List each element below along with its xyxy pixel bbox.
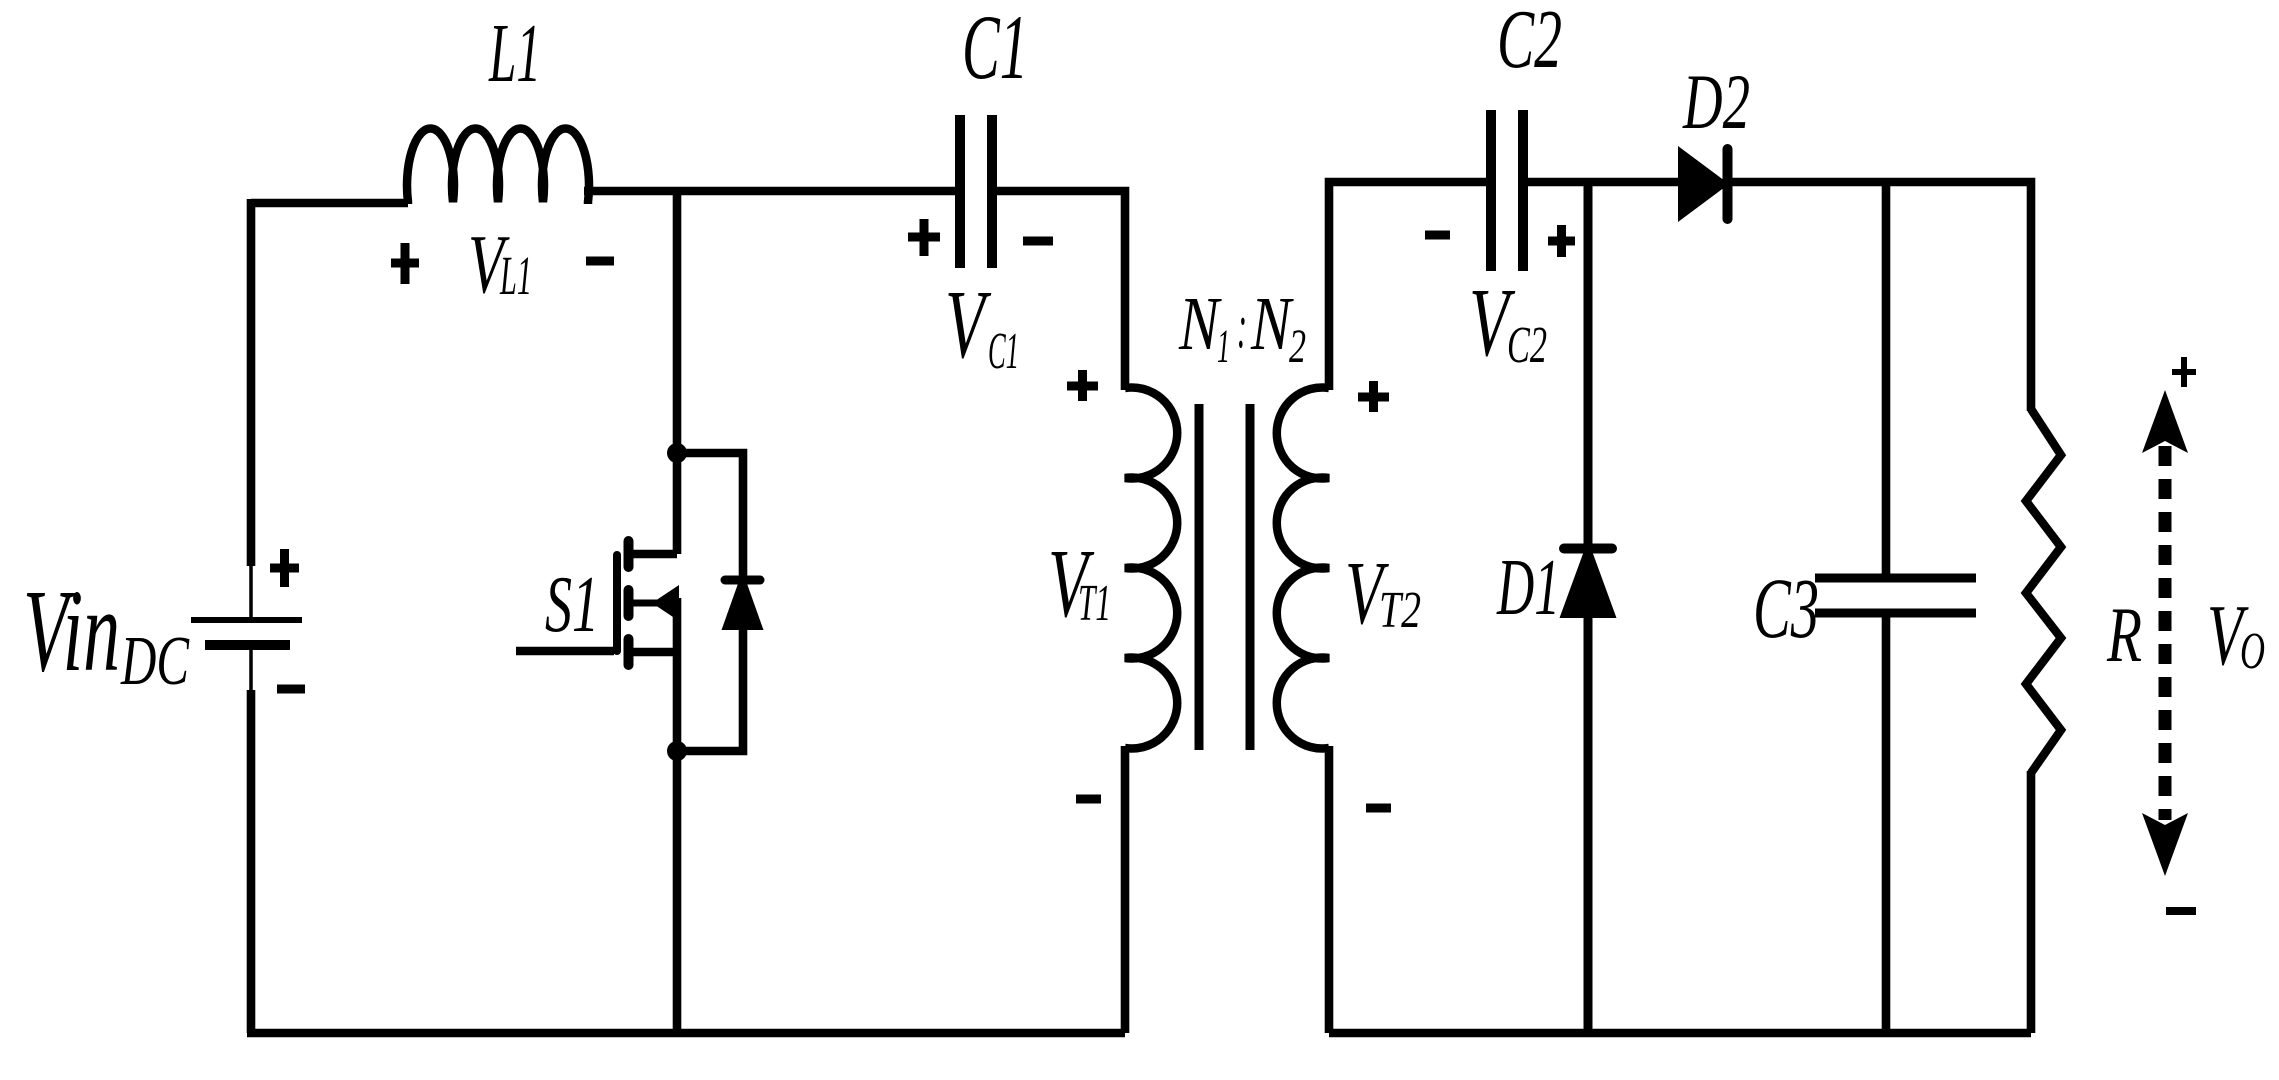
plus sign battery [270,549,299,587]
capacitor C2 right plate [1518,110,1528,271]
svg-text:C2: C2 [1507,317,1547,374]
svg-text:C1: C1 [988,323,1019,380]
plus sign V_C1 [908,219,940,256]
minus sign battery [277,685,305,694]
node B: S1 source junction dot [667,741,687,761]
svg-text:T2: T2 [1379,582,1421,639]
transformer core line right [1246,404,1255,750]
svg-text:L1: L1 [499,245,532,306]
minus sign V_C2 [1425,231,1450,240]
resistor R zigzag [2026,409,2061,773]
transistor S1 drain horizontal connection [633,550,677,559]
wire: D2 to right corner and down resistor branch top [1730,182,2031,411]
node A: S1 drain junction dot [667,443,687,463]
transistor S1 gate bar [613,555,621,651]
wire: S1 drain vertical from top rail to node [673,191,682,554]
battery Vin_DC negative plate [205,640,290,650]
wire: bottom rail secondary side [1329,1029,2031,1038]
minus sign V_L1 [586,257,614,266]
svg-text:1: 1 [1217,320,1230,373]
svg-text:N: N [1250,282,1294,366]
svg-text:N: N [1178,282,1222,366]
plus sign V_C2 [1548,225,1575,257]
wire: S1 source vertical down to bottom rail [673,598,682,1033]
arrow V_O dashed shaft [2159,446,2172,820]
transformer core line left [1195,404,1204,750]
svg-text:DC: DC [120,623,190,700]
transistor Q S1 MOSFET gate lead [516,647,614,656]
wire: body-diode branch top jog [677,453,743,577]
wire: C3 branch top vertical [1882,182,1891,580]
svg-text:L1: L1 [488,7,541,100]
plus sign V_T1 [1067,370,1098,401]
transformer T1 primary winding [1125,388,1177,749]
svg-text:C3: C3 [1753,560,1819,656]
plus sign V_O [2172,357,2196,387]
transistor S1 source horizontal connection [633,648,677,657]
svg-text:D1: D1 [1496,544,1560,632]
arrow V_O bottom head [2142,813,2188,876]
wire: top-left horizontal from source to L1 [251,199,408,208]
transistor S1 channel segment source [624,639,634,665]
transistor S1 channel segment body [624,590,634,616]
wire: secondary bottom lead down to bottom rail [1325,746,1334,1033]
wire: thin lead out of battery bottom plate [249,647,253,692]
capacitor C2 left plate [1486,110,1496,271]
svg-text:Vin: Vin [23,565,120,696]
svg-text:C1: C1 [962,0,1028,98]
wire: body-diode branch bottom jog [677,627,743,751]
wire: C2 to D2 [1528,178,1680,187]
capacitor C3 bottom plate [1815,609,1976,618]
svg-text:2: 2 [1289,320,1306,373]
svg-text:T1: T1 [1078,575,1111,632]
wire: C1 right plate to corner and down to transformer primary [997,191,1125,390]
diode D1 cathode bar [1564,544,1612,554]
wire: left vertical from top corner down to battery top [247,199,256,566]
transformer T1 secondary winding [1277,388,1329,749]
inductor L1 [407,129,589,204]
wire: C3 branch bottom vertical [1882,611,1891,1033]
transistor S1 body arrow [652,585,679,621]
wire: secondary top lead up and right to C2 [1329,182,1486,390]
minus sign V_T1 [1076,795,1101,804]
transistor S1 channel segment drain [624,541,634,567]
minus sign V_O [2166,907,2196,915]
diode S1 body diode triangle [722,571,764,630]
minus sign V_T2 [1366,804,1391,813]
diode D2 cathode bar [1723,149,1733,219]
diode D1 triangle [1560,540,1617,618]
wire: top rail from L1 to C1 [584,187,955,196]
wire: left vertical from battery down to bottom rail [247,690,256,1033]
capacitor C1 right plate [987,115,997,268]
svg-text:D2: D2 [1682,58,1750,145]
svg-text:C2: C2 [1497,0,1562,86]
svg-text:O: O [2240,623,2265,680]
capacitor C3 top plate [1815,574,1976,583]
wire: D1 branch vertical [1584,182,1593,1033]
wire: thin lead into battery top plate [249,564,253,618]
wire: bottom rail primary side [247,1029,1125,1038]
wire: resistor bottom lead [2027,771,2036,1033]
plus sign V_T2 [1358,381,1389,412]
capacitor C1 left plate [955,115,965,268]
svg-text:V: V [945,271,992,379]
svg-text:S1: S1 [545,561,599,649]
svg-text::: : [1237,293,1247,361]
transistor S1 body line to arrow [633,600,658,607]
arrow V_O top head [2142,390,2188,453]
svg-text:R: R [2106,591,2142,678]
battery Vin_DC positive plate [191,617,302,623]
wire: primary winding bottom lead to bottom rail [1121,746,1130,1033]
minus sign V_C1 [1023,237,1053,246]
plus sign V_L1 [391,243,419,284]
diode D2 triangle [1678,146,1729,222]
diode S1 body diode cathode bar [725,576,760,585]
